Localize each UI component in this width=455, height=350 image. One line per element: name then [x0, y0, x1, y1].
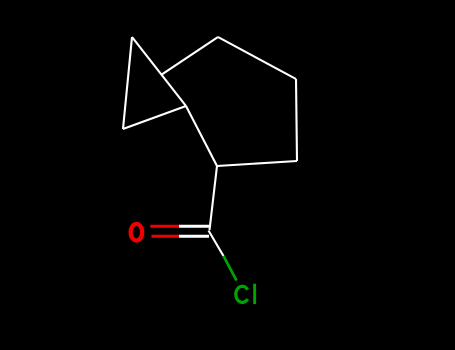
cyclopropane ring: bond C8-C3 (bottom edge) [123, 106, 186, 129]
carbonyl C=O double bond, oxygen half (red), upper line [150, 225, 179, 228]
bond C(carbonyl)-Cl, carbon half (white) [209, 231, 224, 257]
cyclopropane ring: bond C7-C3 (hypotenuse) [132, 37, 186, 106]
cyclopropane ring: bond C7-C8 (left edge) [123, 37, 132, 129]
cyclohexane ring: bond C5-C6 (upper-right edge) [218, 37, 296, 79]
cyclohexane ring: bond C1-C2 (bottom edge) [217, 161, 297, 166]
atom label O (oxygen, red) drawn as ellipse ring [131, 224, 143, 241]
cyclohexane ring: bond C2-C3 (lower-left edge to spiro junction) [186, 106, 217, 166]
bond C(carbonyl)-Cl, chlorine half (green) [224, 256, 237, 281]
bond C2-C(carbonyl) [210, 166, 218, 230]
carbonyl C=O double bond, oxygen half (red), lower line [152, 235, 180, 238]
carbonyl C=O double bond, carbon half (white), lower line [179, 235, 209, 238]
atom label Cl: letter C (green) drawn as open arc [236, 286, 248, 302]
carbonyl C=O double bond, carbon half (white), upper line [179, 225, 209, 228]
atom label Cl: letter l (green) drawn as bar [253, 284, 256, 304]
cyclohexane ring: bond C6-C1 (right edge) [296, 79, 297, 161]
cyclohexane ring: bond C4-C5 (upper-left edge) [161, 37, 218, 75]
